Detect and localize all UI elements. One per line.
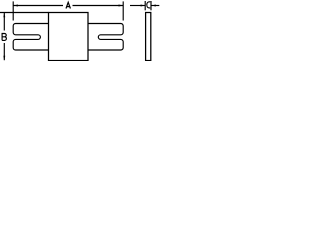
label B (drawn as path) — [2, 34, 6, 41]
dimension B dim line bottom segment — [3, 43, 5, 60]
extension line A left — [12, 1, 14, 20]
dimension A left arrowhead — [13, 5, 18, 7]
dimension C right arrowhead (pointing left) — [151, 5, 156, 7]
extension line C right — [150, 1, 152, 10]
dimension B top arrowhead — [3, 13, 5, 18]
body outline (front view) — [49, 13, 89, 61]
right tab outline with open slot and rounded finger tips — [88, 24, 123, 51]
dimension A right arrowhead — [119, 5, 124, 7]
extension line C left — [144, 1, 146, 10]
dimension A dim line right segment — [73, 5, 124, 7]
dimension A dim line left segment — [13, 5, 63, 7]
left tab outline with open slot and rounded finger tips — [13, 24, 48, 51]
extension line A right — [122, 1, 124, 20]
side view rectangle — [146, 13, 151, 61]
dimension C left leader line — [130, 5, 145, 7]
dimension B dim line top segment — [3, 13, 5, 31]
dimension B bottom arrowhead — [3, 56, 5, 61]
dimension C right leader line — [151, 5, 159, 7]
extension line B top (collinear with body top) — [0, 12, 49, 14]
dimension C left arrowhead (pointing right) — [141, 5, 146, 7]
label A (drawn as path) — [66, 2, 70, 8]
label C (drawn as path) — [147, 2, 151, 8]
